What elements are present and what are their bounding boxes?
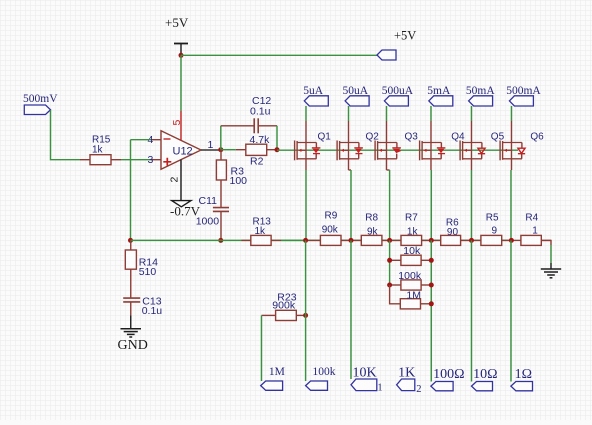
pin 1 (output) — [201, 149, 221, 151]
resistor 1M (parallel) — [390, 285, 432, 309]
transistor Q4 — [420, 141, 446, 161]
node J6 on feedback rail — [509, 238, 514, 243]
power +5V bar symbol — [174, 44, 188, 56]
svg-text:3: 3 — [148, 154, 154, 166]
resistor R13 — [241, 235, 281, 245]
wire Q4 drain lead — [430, 106, 432, 143]
resistor R23 — [262, 310, 306, 320]
svg-text:R9: R9 — [325, 210, 338, 221]
pin 3 (non-inverting input) — [151, 159, 161, 161]
port 100-ohm — [431, 382, 453, 391]
node J2 on feedback rail — [349, 238, 354, 243]
svg-text:U12: U12 — [173, 146, 193, 158]
svg-text:90k: 90k — [322, 225, 339, 236]
resistor R8 — [351, 235, 390, 245]
svg-text:900k: 900k — [272, 300, 296, 312]
svg-text:R5: R5 — [486, 213, 499, 224]
svg-text:10k: 10k — [403, 245, 421, 257]
wire Q4 source lead — [430, 159, 432, 241]
svg-text:R8: R8 — [365, 213, 378, 224]
svg-text:1M: 1M — [269, 366, 285, 378]
port 500uA — [384, 96, 408, 106]
svg-text:2: 2 — [169, 177, 181, 183]
ground (earth) right — [541, 263, 561, 278]
node J5 on feedback rail — [469, 238, 474, 243]
svg-text:Q2: Q2 — [366, 131, 380, 142]
wire MOSFET gate rail — [277, 149, 518, 151]
svg-text:Q3: Q3 — [405, 131, 419, 142]
wire Q1 source lead — [305, 159, 307, 241]
svg-text:10Ω: 10Ω — [473, 367, 497, 382]
power port +5V (right) — [377, 50, 396, 60]
svg-text:1: 1 — [377, 383, 382, 394]
port 5uA — [304, 96, 328, 106]
pin 5 (V+) — [180, 111, 182, 141]
node +5V rail junction — [179, 53, 184, 58]
resistor R6 — [431, 235, 471, 245]
svg-text:5mA: 5mA — [427, 85, 451, 97]
svg-text:1k: 1k — [407, 226, 419, 237]
wire output to R2 — [221, 149, 236, 151]
svg-text:Q4: Q4 — [451, 131, 465, 142]
transistor Q3 — [375, 141, 401, 161]
svg-text:9k: 9k — [367, 226, 379, 237]
resistor R15 — [80, 155, 121, 165]
svg-text:2: 2 — [416, 384, 421, 395]
wire Q5 source lead — [471, 159, 473, 241]
pin 4 (inverting input) — [151, 139, 161, 141]
wire C12 left riser — [220, 126, 222, 150]
capacitor C11 — [213, 208, 229, 241]
svg-text:9: 9 — [492, 225, 498, 236]
transistor Q6 — [500, 141, 525, 161]
wire R15 to op-amp pin 3 — [121, 159, 151, 161]
wire op-amp pin 4 left — [131, 139, 152, 141]
svg-text:+5V: +5V — [165, 15, 189, 30]
wire left branch vertical — [389, 240, 391, 285]
svg-text:R4: R4 — [525, 213, 538, 224]
ground GND — [121, 315, 142, 337]
svg-text:R2: R2 — [250, 156, 264, 168]
svg-text:1K: 1K — [398, 365, 415, 380]
port 500mV — [24, 105, 50, 115]
node J3 on feedback rail — [387, 238, 392, 243]
wire Q6 source lead — [510, 159, 513, 241]
resistor R3 — [216, 150, 226, 190]
svg-text:1: 1 — [532, 225, 538, 236]
port 10-ohm — [472, 382, 493, 391]
node J1 on feedback rail — [303, 238, 308, 243]
wire Q2 drain lead — [348, 106, 350, 143]
node 100k right — [429, 283, 434, 288]
svg-text:Q5: Q5 — [491, 131, 505, 142]
resistor R14 — [125, 240, 136, 269]
port 10K — [351, 379, 377, 391]
resistor R9 — [306, 235, 351, 245]
resistor 100k (parallel) — [390, 280, 432, 290]
wire Q1 drain lead — [305, 106, 307, 143]
svg-text:510: 510 — [139, 266, 157, 278]
wire Q2 source lead — [349, 159, 352, 241]
op-amp non-inverting input marker — [163, 158, 171, 166]
port 50uA — [345, 96, 369, 106]
node J4 on feedback rail — [429, 238, 434, 243]
svg-text:500mA: 500mA — [506, 85, 541, 97]
capacitor C13 — [123, 298, 140, 315]
transistor Q1 — [295, 141, 321, 161]
svg-text:0.1u: 0.1u — [250, 106, 271, 118]
wire R3 to C11 — [220, 190, 222, 208]
wire 500mV to R15 — [51, 110, 81, 160]
wire R4 to ground — [541, 240, 551, 245]
node R2 output / gate rail — [275, 147, 280, 152]
svg-text:+5V: +5V — [394, 29, 416, 43]
svg-text:Q6: Q6 — [530, 131, 544, 142]
svg-text:50uA: 50uA — [343, 85, 369, 97]
op-amp U12 — [161, 131, 201, 170]
svg-text:C11: C11 — [199, 195, 218, 207]
wire to earth — [550, 245, 552, 263]
svg-text:5uA: 5uA — [303, 85, 324, 97]
op-amp inverting input marker — [164, 138, 171, 140]
node 100k left — [387, 283, 392, 288]
wire R14 to C13 — [130, 269, 132, 298]
svg-text:R7: R7 — [405, 213, 418, 224]
wire +5V rail horizontal — [181, 54, 377, 56]
node 1M right — [429, 301, 434, 306]
svg-text:1000: 1000 — [196, 216, 220, 228]
port 1K — [397, 379, 415, 391]
wire J2 to 10K port — [350, 240, 352, 379]
svg-text:50mA: 50mA — [466, 85, 495, 97]
svg-text:100k: 100k — [313, 366, 336, 378]
svg-text:100: 100 — [230, 175, 248, 187]
svg-text:1Ω: 1Ω — [515, 367, 532, 382]
node 10k right — [429, 258, 434, 263]
resistor R7 — [390, 235, 432, 245]
transistor Q2 — [337, 141, 363, 161]
transistor Q5 — [460, 141, 485, 161]
wire feedback rail — [131, 239, 512, 241]
port 5mA — [429, 96, 453, 106]
wire R13 right to node — [281, 239, 306, 241]
svg-text:4.7k: 4.7k — [250, 134, 271, 146]
svg-text:1: 1 — [208, 139, 214, 151]
wire Q3 drain lead — [386, 106, 388, 143]
svg-text:GND: GND — [118, 338, 148, 353]
node C11 to feedback rail — [218, 238, 223, 243]
svg-text:0.1u: 0.1u — [142, 305, 163, 317]
pin 2 (V-) — [180, 160, 182, 201]
wire R23 to 1M port — [261, 315, 263, 381]
svg-text:10K: 10K — [353, 365, 377, 380]
wire Q5 drain lead — [471, 106, 473, 143]
node feedback column — [128, 238, 133, 243]
port 50mA — [469, 96, 493, 106]
wire Q6 drain lead — [511, 106, 513, 143]
wire right branch vertical — [430, 240, 432, 381]
resistor R4 — [511, 235, 551, 245]
wire +5V down to op-amp pin 5 — [180, 55, 182, 111]
wire Q3 source lead — [387, 159, 390, 241]
svg-text:100Ω: 100Ω — [433, 367, 464, 382]
svg-text:1k: 1k — [255, 226, 267, 237]
wire C12 right riser — [276, 126, 278, 150]
resistor R5 — [472, 235, 512, 245]
port 1M — [261, 381, 283, 390]
wire J1 to 100k port — [305, 240, 307, 381]
port 100k — [306, 381, 328, 390]
port 500mA — [509, 96, 533, 106]
port 1-ohm — [511, 382, 533, 391]
resistor 10k (parallel) — [390, 255, 432, 265]
node op-amp output — [218, 147, 223, 152]
svg-text:100k: 100k — [398, 270, 422, 282]
power -0.7V symbol — [172, 201, 191, 207]
svg-text:1M: 1M — [406, 290, 421, 302]
svg-text:Q1: Q1 — [318, 131, 332, 142]
svg-text:500uA: 500uA — [382, 85, 414, 97]
resistor R2 — [236, 144, 277, 155]
svg-text:5: 5 — [171, 120, 183, 126]
wire J6 to 1-ohm port — [510, 240, 512, 381]
wire feedback column vertical — [130, 140, 132, 241]
wire J5 to 10-ohm port — [471, 240, 473, 381]
node R23 right on 100k column — [303, 313, 308, 318]
svg-text:1k: 1k — [92, 145, 104, 156]
svg-text:90: 90 — [447, 227, 459, 238]
node 10k left — [387, 258, 392, 263]
capacitor C12 — [221, 118, 277, 133]
svg-text:500mV: 500mV — [23, 93, 58, 105]
